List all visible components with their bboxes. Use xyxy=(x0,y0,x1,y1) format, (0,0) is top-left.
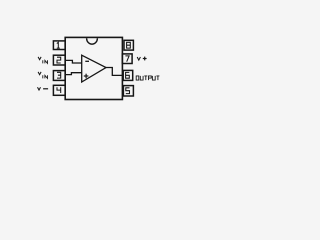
pin 5 number xyxy=(126,88,130,94)
pin 1 box xyxy=(53,41,65,50)
label VIN at pin 2 xyxy=(38,57,41,60)
pin 2 number xyxy=(57,57,61,63)
IC body U1 (8-pin DIP outline) xyxy=(65,37,122,99)
label V- at pin 4 xyxy=(38,87,41,90)
label OUTPUT at pin 6 xyxy=(136,76,159,80)
op-amp inverting input minus sign xyxy=(85,60,89,62)
pin 8 box xyxy=(124,40,133,50)
pin 8 number xyxy=(127,42,131,48)
pin 5 box xyxy=(123,86,133,96)
pin 6 number xyxy=(126,72,130,78)
pin 2 box xyxy=(53,55,65,65)
pin 3 number xyxy=(57,72,61,78)
wire pin 2 to inverting input xyxy=(66,60,82,63)
pin 7 box xyxy=(122,54,132,64)
pin 4 number xyxy=(57,87,61,93)
pin 6 box xyxy=(123,70,133,80)
pin 4 box xyxy=(53,85,65,95)
op-amp non-inverting input plus sign xyxy=(84,75,89,77)
op-amp U1 triangle xyxy=(82,55,106,82)
label V+ at pin 7 xyxy=(137,57,140,60)
pin 7 number xyxy=(125,56,129,62)
wire op-amp output to pin 6 xyxy=(106,68,124,76)
wire pin 3 to non-inverting input xyxy=(66,73,82,75)
pin 3 box xyxy=(53,71,65,81)
label VIN at pin 3 xyxy=(38,72,41,75)
pin 1 number xyxy=(57,42,60,48)
notch (pin-1 end orientation notch at top center) xyxy=(87,38,98,44)
